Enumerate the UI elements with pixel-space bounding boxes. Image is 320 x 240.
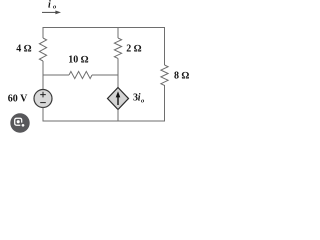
arrow inside diamond <box>117 96 119 106</box>
lens center dot <box>17 120 20 123</box>
resistor R 4ohm zigzag <box>39 38 46 61</box>
voltage source 60V circle <box>34 90 52 108</box>
resistor R 10ohm zigzag <box>69 71 92 78</box>
lens corner dot <box>22 124 25 127</box>
svg-text:8 Ω: 8 Ω <box>174 70 190 81</box>
svg-text:i: i <box>48 0 51 11</box>
current arrow io at top <box>42 11 57 13</box>
svg-text:2 Ω: 2 Ω <box>126 44 142 55</box>
wire bottom rail <box>43 85 165 121</box>
wire middle branch to diamond <box>117 58 119 87</box>
wire 10ohm horizontal right lead <box>92 74 118 76</box>
svg-text:60 V: 60 V <box>8 93 28 104</box>
plus sign <box>40 92 46 98</box>
resistor R 2ohm zigzag <box>114 38 121 58</box>
resistor R 8ohm zigzag <box>161 65 168 85</box>
svg-text:10 Ω: 10 Ω <box>68 55 89 66</box>
wire 10ohm horizontal left lead <box>43 74 69 76</box>
wire left branch lower lead <box>42 61 44 90</box>
dependent current source 3io diamond <box>108 88 129 110</box>
svg-text:4 Ω: 4 Ω <box>16 44 32 55</box>
wire middle branch upper lead <box>117 28 119 39</box>
wire top rail with left/right corners <box>43 28 165 66</box>
minus sign <box>40 102 46 104</box>
lens square outline <box>15 118 22 125</box>
wire diamond bottom lead <box>117 110 119 122</box>
google lens icon badge <box>10 113 29 132</box>
